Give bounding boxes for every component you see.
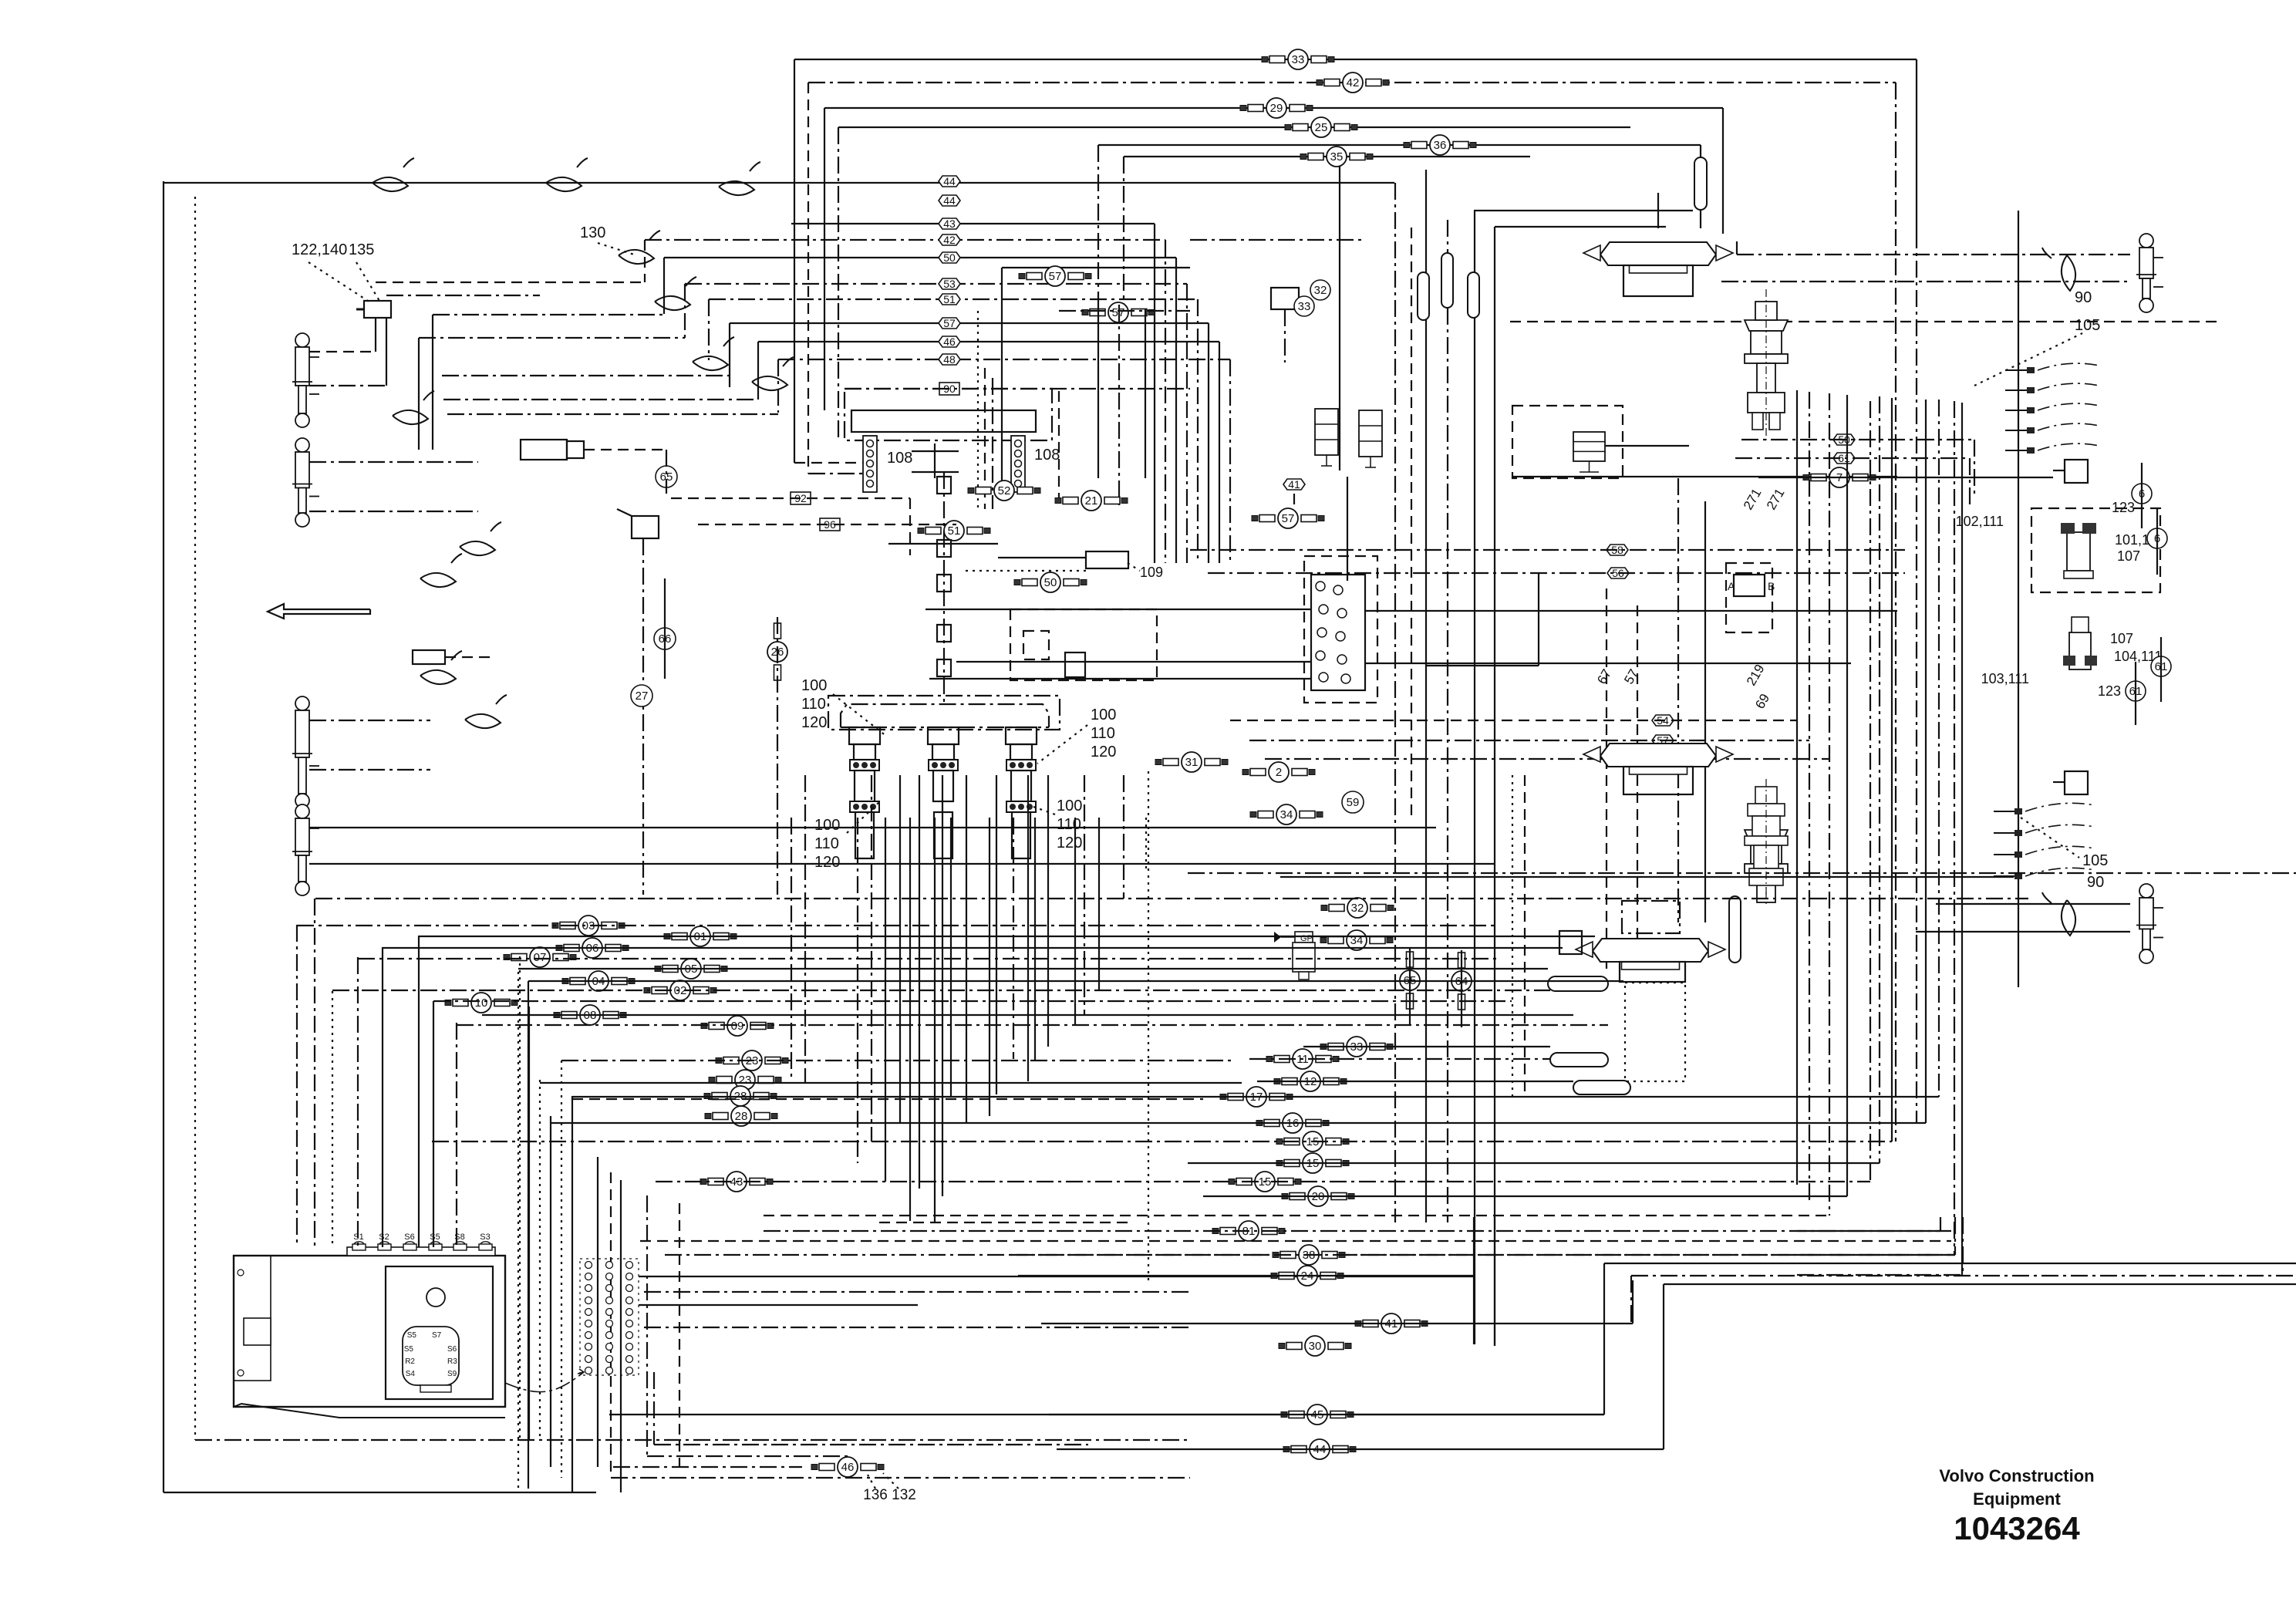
svg-text:S7: S7 <box>432 1331 442 1340</box>
tr wire2 <box>1512 476 1897 477</box>
svg-text:109: 109 <box>1140 565 1163 580</box>
hose 06 <box>556 938 629 958</box>
wire 44 v <box>1663 1284 1664 1449</box>
wire staircase v <box>663 258 665 314</box>
wire staircase v <box>644 240 646 282</box>
wire feed 537 <box>447 413 778 415</box>
wire 45 top <box>1604 1263 2296 1264</box>
hose 52 <box>968 481 1040 501</box>
wire feed 383 <box>386 295 540 296</box>
svg-text:136: 136 <box>863 1487 888 1503</box>
wire vt700 <box>539 1080 541 1440</box>
hose 28a <box>704 1086 777 1106</box>
wire vt839 <box>646 1195 648 1456</box>
svg-text:10: 10 <box>475 996 488 1010</box>
svg-text:07: 07 <box>534 951 547 964</box>
label 42 <box>939 234 960 246</box>
label 61r <box>1833 452 1855 464</box>
svg-text:53: 53 <box>943 278 956 290</box>
wire cylA p2 <box>309 385 386 386</box>
wire right v 2617 <box>2018 211 2019 987</box>
shaft segment 5 <box>937 659 951 676</box>
svg-text:35: 35 <box>1330 150 1344 164</box>
svg-text:108: 108 <box>887 450 912 467</box>
svg-text:130: 130 <box>580 224 605 241</box>
svg-text:S6: S6 <box>404 1233 414 1242</box>
dome top base <box>1623 265 1693 296</box>
valve 135 fitting <box>356 309 364 311</box>
wire tower v <box>1074 818 1076 1025</box>
break symbol <box>2042 248 2075 291</box>
hose 77 <box>1803 467 1876 487</box>
wire tower v <box>989 818 990 1116</box>
svg-text:S5: S5 <box>404 1345 414 1354</box>
wire line 50 <box>664 257 1176 258</box>
wire bus bottom <box>1249 1058 1550 1060</box>
wire tower v <box>919 775 920 1189</box>
wire corner v <box>1962 1217 1964 1275</box>
svg-text:32: 32 <box>1351 902 1364 915</box>
break symbol <box>373 158 414 191</box>
valve manifold <box>1311 575 1365 690</box>
wire 50r <box>1741 439 1974 440</box>
svg-text:42: 42 <box>943 234 956 246</box>
wire strip out <box>644 1291 1190 1293</box>
svg-text:S6: S6 <box>447 1345 457 1354</box>
tower neck <box>854 744 875 760</box>
svg-text:90: 90 <box>2087 874 2104 891</box>
wire strip out <box>609 1414 1604 1415</box>
wire diamond v <box>1347 477 1348 581</box>
wire cylB p2 <box>309 511 478 512</box>
wire into tank <box>296 925 298 1247</box>
shaft segment 3 <box>937 575 951 592</box>
label 48 <box>939 353 960 366</box>
wire line 57 <box>730 322 1209 324</box>
valve manifold dashed box <box>1304 556 1377 703</box>
reservoir dashed box <box>845 389 1052 440</box>
label 57d <box>1652 734 1674 747</box>
hose 57 <box>1019 266 1091 286</box>
wire tower v <box>996 775 997 1094</box>
wire corner v <box>1940 1217 1941 1231</box>
wire bus bottom <box>656 1181 1870 1182</box>
label 46 <box>939 336 960 348</box>
svg-text:25: 25 <box>1315 121 1328 134</box>
svg-text:2: 2 <box>1276 766 1282 779</box>
dome mid base <box>1623 767 1693 794</box>
accumulator v1 <box>1418 272 1429 320</box>
svg-text:110: 110 <box>1091 725 1115 742</box>
T fitting bottom wire <box>2053 781 2065 783</box>
label 41 <box>1283 478 1305 491</box>
hose 34b <box>1320 930 1393 950</box>
hose 25 <box>1285 117 1357 137</box>
wire mid v 2514 <box>1938 400 1940 1097</box>
wire line 43 <box>791 223 1155 224</box>
tower lower body <box>855 812 874 858</box>
wire bus bottom <box>358 958 1496 959</box>
wire v2120 <box>1637 605 1638 969</box>
leader 136 <box>868 1475 875 1489</box>
wire v1912 <box>1474 211 1475 1344</box>
svg-text:1043264: 1043264 <box>1954 1510 2080 1546</box>
air governor dome mid <box>1583 744 1733 774</box>
shaft segment 4 <box>937 625 951 642</box>
hose 81 <box>1212 1221 1285 1241</box>
valve 135 <box>364 301 391 318</box>
label 44 <box>939 175 960 187</box>
hose 57b <box>1082 302 1155 322</box>
cylinder A <box>292 333 319 427</box>
tr dashed box <box>1512 406 1623 478</box>
wire mid v 2330 <box>1796 390 1798 1185</box>
hose 24 <box>1271 1266 1344 1286</box>
wire 109 left <box>998 557 1086 558</box>
svg-text:120: 120 <box>1057 835 1082 851</box>
svg-text:23: 23 <box>739 1074 752 1087</box>
wire v1877 <box>1447 220 1448 1222</box>
wire v1485 <box>1145 309 1146 478</box>
tank terminals <box>352 1233 492 1250</box>
label 92 <box>791 492 811 504</box>
wire sol link <box>1293 494 1295 509</box>
wire 311 ext <box>1190 239 1365 241</box>
wire vt792 <box>610 1172 612 1478</box>
hose 21 <box>1055 491 1128 511</box>
wire into tank <box>332 991 333 1247</box>
switch lever <box>617 509 632 516</box>
tower lower body <box>934 812 952 858</box>
wire bus bottom <box>1303 1046 1550 1047</box>
wire mid v 2497 <box>1925 400 1927 1123</box>
wire h863 <box>1427 665 1539 666</box>
label 96 <box>820 518 840 531</box>
relief valve <box>1271 288 1299 309</box>
hose 32c <box>1321 898 1394 918</box>
hose 35 <box>1300 147 1373 167</box>
wire col h347 <box>1002 267 1190 268</box>
wire 96 dashed <box>698 524 956 525</box>
hose 44b <box>1283 1439 1356 1459</box>
pt block dashed <box>1010 609 1157 680</box>
wire bus bottom <box>1203 1195 1847 1197</box>
v hose 61a <box>2160 637 2162 702</box>
wire manifold r2 <box>1365 663 1851 664</box>
wire staircase v <box>708 299 710 360</box>
wire right v 2458 <box>1895 83 1896 1141</box>
wire v1995 <box>1538 573 1539 666</box>
wire feed v543 <box>418 338 420 450</box>
wire 57b <box>1059 310 1190 312</box>
svg-text:219: 219 <box>1744 662 1768 688</box>
wire v1489 dotted <box>1148 771 1149 1280</box>
wire bus v1 c <box>794 462 863 464</box>
svg-text:29: 29 <box>1270 102 1283 115</box>
svg-text:105: 105 <box>2082 852 2108 869</box>
hose 03 <box>552 916 625 936</box>
svg-text:100: 100 <box>1091 706 1116 723</box>
wire leader 122 <box>356 262 379 301</box>
svg-text:57: 57 <box>1621 666 1641 686</box>
svg-text:R3: R3 <box>447 1357 457 1366</box>
svg-text:46: 46 <box>943 336 956 348</box>
wire bus v4 <box>838 127 839 440</box>
long dash line <box>1510 321 2221 322</box>
wire vt728 <box>561 1061 562 1478</box>
hose 30 <box>1279 1336 1351 1356</box>
svg-text:30: 30 <box>1309 1340 1322 1353</box>
wire bus 29 <box>824 107 1723 109</box>
brake valve dashed box 1 <box>2031 508 2160 592</box>
wire 45 v <box>1603 1263 1605 1415</box>
svg-text:Volvo Construction: Volvo Construction <box>1939 1466 2094 1485</box>
wire bus v3 <box>824 108 825 410</box>
wire staircase v <box>729 323 730 387</box>
reservoir box <box>851 410 1036 432</box>
wire dense row <box>879 1222 1134 1223</box>
wire tower v <box>966 775 967 1123</box>
wire col v1299 <box>1001 268 1003 494</box>
hose 42 <box>1317 73 1389 93</box>
svg-text:57: 57 <box>1049 270 1062 283</box>
label 57 <box>939 317 960 329</box>
T fitting mid <box>1559 931 1582 954</box>
tower body <box>855 771 875 801</box>
steering shaft <box>943 472 945 704</box>
wire into tank <box>433 1001 434 1247</box>
wire 44 top <box>1664 1283 2296 1285</box>
hose 01 <box>664 926 737 946</box>
hose 15b <box>1276 1153 1349 1173</box>
leader 105a <box>1974 333 2082 386</box>
svg-text:123: 123 <box>2112 500 2135 515</box>
wire bus bottom <box>432 1141 1892 1142</box>
wire col v1268 <box>977 311 979 509</box>
break symbol <box>693 337 734 370</box>
wire tower v <box>1034 818 1036 1061</box>
wire mid v 2453 <box>1891 398 1893 1141</box>
wire tower v <box>1084 775 1085 1015</box>
svg-text:27: 27 <box>636 690 649 703</box>
wire tower v <box>1145 818 1147 873</box>
cylinder right top <box>2136 234 2163 312</box>
wire bus bottom <box>540 1082 1242 1084</box>
wire col v1277 <box>984 368 986 509</box>
hose 43c <box>700 1172 773 1192</box>
wire vt805 <box>620 1180 622 1492</box>
leader 100b <box>847 802 879 833</box>
wire bus bottom <box>1188 872 2296 874</box>
hose 41b <box>1355 1313 1428 1334</box>
svg-text:107: 107 <box>2117 548 2140 564</box>
wire bus bottom <box>457 1024 1608 1026</box>
wire hex57 <box>1249 740 1809 741</box>
wire hex54 <box>1230 720 1797 721</box>
wire mid v 2372 <box>1829 393 1830 1216</box>
tower neck <box>1010 744 1032 760</box>
wire strip out <box>639 1304 918 1306</box>
label 51 <box>939 293 960 305</box>
cylinder D <box>292 804 319 895</box>
svg-text:90: 90 <box>2075 289 2092 306</box>
wire v2176 <box>1677 478 1679 922</box>
valve 109 <box>1086 551 1128 568</box>
pt block inner dashed <box>1023 631 1049 659</box>
wire bus 42 <box>808 82 1896 83</box>
brake valve 1 <box>2061 523 2096 578</box>
wire v1451 <box>1118 305 1120 509</box>
wire feed 518 <box>443 399 758 400</box>
hose 08 <box>554 1005 626 1025</box>
wire hex56 <box>1208 572 1905 574</box>
hose 04 <box>562 971 635 991</box>
wire tower v <box>885 818 886 1182</box>
accumulator <box>1694 157 1707 210</box>
break symbol <box>460 522 501 555</box>
T fitting wire <box>2053 470 2065 471</box>
wire tower v <box>1123 775 1124 899</box>
wire tower v <box>934 818 936 1222</box>
wire tower v <box>791 818 792 1081</box>
svg-text:R2: R2 <box>405 1357 415 1366</box>
wire mid v 2425 <box>1870 401 1871 1182</box>
wire switch down <box>642 538 644 895</box>
accumulator v3 <box>1468 272 1479 318</box>
svg-text:123: 123 <box>2098 683 2121 699</box>
wire bus v2 c <box>808 473 863 474</box>
wire tower v <box>804 775 806 1083</box>
hydraulic tank <box>234 1247 505 1418</box>
svg-text:57: 57 <box>943 317 956 329</box>
switch body <box>632 516 659 538</box>
wire manifold l1 <box>925 609 1311 610</box>
wire solenoid right <box>584 449 666 450</box>
wire 24 dd right <box>1631 1275 2296 1276</box>
bracket <box>912 450 959 452</box>
wire 65 v <box>666 450 667 494</box>
tower lower body <box>1012 812 1030 858</box>
wire cyl h right <box>445 656 494 658</box>
svg-text:103,111: 103,111 <box>1981 671 2029 686</box>
wire bus bottom <box>332 990 1550 991</box>
hose 33c <box>1320 1037 1393 1057</box>
wire strip out <box>654 1444 1088 1445</box>
wire bus bottom <box>1257 1081 1573 1082</box>
svg-text:S9: S9 <box>447 1370 457 1378</box>
wire bus 36 drop <box>1700 145 1701 157</box>
wire 30 v <box>1494 1217 1495 1346</box>
leader 100a <box>833 694 887 737</box>
wire 26 v <box>777 617 778 895</box>
wire strip v <box>653 1372 655 1445</box>
bracket2 <box>912 471 959 473</box>
wire bus 25 <box>838 126 1630 128</box>
svg-text:GP: GP <box>1300 934 1313 943</box>
hose 15c <box>1229 1172 1301 1192</box>
wire 66 v <box>664 578 666 679</box>
leader 105b <box>2021 818 2079 858</box>
wire cylB p1 <box>309 461 478 463</box>
tower body <box>1011 771 1031 801</box>
break symbol <box>420 651 462 684</box>
svg-text:S2: S2 <box>379 1233 389 1242</box>
wire bus 35 <box>1124 156 1530 157</box>
wire v686 <box>528 1007 530 1440</box>
hose 29 <box>1240 98 1313 118</box>
wire drop 43 <box>1154 224 1155 563</box>
label 54 <box>1652 714 1674 727</box>
wire line 53 <box>685 283 1187 285</box>
towers dashed outer <box>828 696 1060 730</box>
svg-text:271: 271 <box>1764 486 1788 512</box>
manifold 108 right <box>1011 436 1025 492</box>
wire acc-dome <box>1700 210 1701 228</box>
wire col v1287 <box>992 378 993 509</box>
filter lubricator <box>1274 932 1315 980</box>
wire 24 v <box>1473 1217 1475 1344</box>
tower port block <box>850 760 879 771</box>
wire right cyl b1 <box>1936 903 2130 905</box>
accumulator mid right <box>1729 896 1741 963</box>
svg-text:34: 34 <box>1280 808 1293 821</box>
hose 2 <box>1242 762 1315 782</box>
wire 92 dashed <box>671 497 910 499</box>
svg-text:59: 59 <box>1347 796 1360 809</box>
solenoid valve 1 <box>1315 409 1338 466</box>
harness connector bottom <box>1994 803 2095 879</box>
svg-text:Equipment: Equipment <box>1973 1489 2061 1509</box>
wire 24 <box>1018 1275 1474 1276</box>
hose 23b <box>709 1070 781 1090</box>
tower head <box>1006 727 1037 744</box>
wire line 51 <box>709 298 1198 300</box>
label 56 <box>1607 567 1629 579</box>
manifold 108 left <box>863 436 877 492</box>
wire bus bottom <box>1188 1162 1880 1164</box>
pt block <box>1065 653 1085 677</box>
wire v1938 <box>1494 227 1495 1346</box>
svg-text:46: 46 <box>841 1461 855 1474</box>
wire bus bottom <box>297 925 1496 926</box>
wire tower v <box>909 818 911 1221</box>
svg-text:110: 110 <box>814 835 839 852</box>
wire 64v <box>1461 950 1462 1027</box>
hose 09 <box>701 1016 774 1036</box>
svg-text:44: 44 <box>943 175 956 187</box>
hose 28b <box>705 1106 777 1126</box>
svg-text:271: 271 <box>1741 486 1765 512</box>
wire corner h <box>1797 1230 1940 1232</box>
svg-text:105: 105 <box>2075 317 2100 334</box>
air governor dome top <box>1583 242 1733 273</box>
svg-text:50: 50 <box>1044 576 1057 589</box>
svg-text:69: 69 <box>1752 691 1772 711</box>
hose 12 <box>1274 1071 1347 1091</box>
solenoid valve 2 <box>1359 410 1382 467</box>
wire cylA p1v <box>375 318 376 352</box>
wire bus bottom <box>572 1098 1203 1100</box>
wire page border top <box>164 182 1394 184</box>
break symbol <box>393 391 434 424</box>
wire 24 ddv <box>1630 1276 1632 1324</box>
wire manifold r1 <box>1365 610 1897 612</box>
svg-text:09: 09 <box>731 1020 744 1033</box>
wire line 46 <box>758 341 1219 342</box>
accumulator h3 <box>1573 1081 1630 1094</box>
hose 34t <box>1250 804 1323 824</box>
tower neck <box>932 744 954 760</box>
